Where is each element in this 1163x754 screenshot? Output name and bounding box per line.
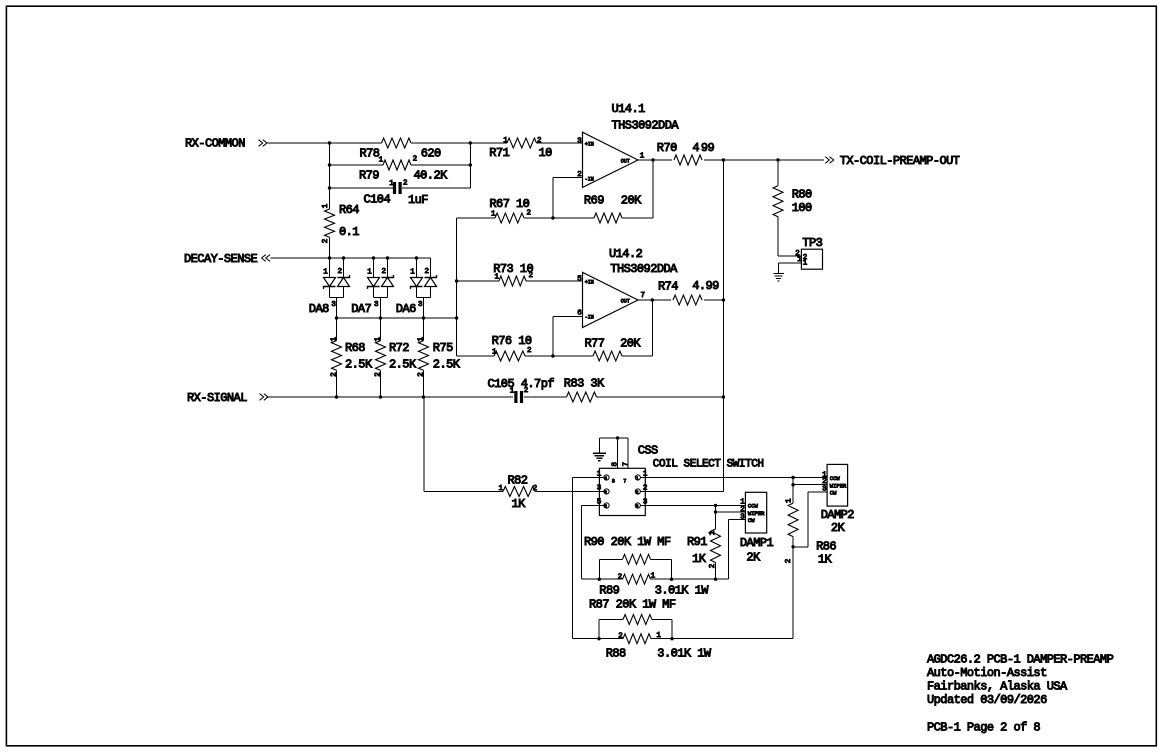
svg-text:+IN: +IN (585, 279, 594, 285)
svg-text:1: 1 (491, 211, 496, 219)
svg-text:2K: 2K (831, 521, 846, 535)
svg-text:8: 8 (611, 462, 619, 467)
svg-text:R91: R91 (687, 535, 707, 549)
svg-text:5: 5 (577, 275, 582, 283)
svg-text:4: 4 (604, 476, 607, 482)
svg-text:CW: CW (748, 517, 755, 524)
svg-text:TX-COIL-PREAMP-OUT: TX-COIL-PREAMP-OUT (840, 154, 960, 168)
svg-text:2: 2 (403, 180, 408, 188)
svg-text:1: 1 (367, 268, 372, 276)
svg-text:2: 2 (533, 485, 538, 493)
svg-text:2: 2 (527, 347, 532, 355)
svg-text:2: 2 (618, 573, 623, 581)
svg-text:2.5K: 2.5K (345, 358, 373, 372)
svg-text:1: 1 (803, 260, 808, 268)
svg-text:1K: 1K (512, 497, 527, 511)
svg-text:40.2K: 40.2K (414, 169, 449, 183)
svg-text:CCW: CCW (748, 503, 759, 510)
svg-text:1: 1 (389, 180, 394, 188)
svg-text:R76 10: R76 10 (492, 334, 532, 348)
svg-text:2K: 2K (746, 551, 761, 565)
svg-text:1: 1 (495, 274, 500, 282)
svg-text:OUT: OUT (621, 159, 630, 165)
svg-text:R64: R64 (339, 203, 359, 217)
svg-text:U14.1: U14.1 (612, 102, 646, 116)
svg-text:1: 1 (417, 337, 425, 342)
svg-text:DA8: DA8 (309, 302, 329, 316)
svg-text:8: 8 (612, 478, 615, 484)
svg-text:3.01K 1W: 3.01K 1W (657, 647, 712, 661)
svg-text:7: 7 (641, 292, 646, 300)
svg-text:6: 6 (577, 309, 582, 317)
svg-text:1: 1 (651, 573, 656, 581)
svg-text:6: 6 (604, 490, 607, 496)
svg-text:3: 3 (740, 513, 745, 521)
svg-text:R75: R75 (433, 341, 453, 355)
svg-text:TP3: TP3 (802, 236, 822, 250)
svg-text:3: 3 (418, 301, 423, 309)
svg-text:2: 2 (529, 272, 534, 280)
svg-text:2: 2 (413, 156, 418, 164)
svg-text:DA6: DA6 (396, 302, 416, 316)
svg-text:R70: R70 (657, 141, 677, 155)
svg-text:R74: R74 (658, 280, 678, 294)
svg-text:Updated 03/09/2026: Updated 03/09/2026 (927, 693, 1047, 707)
svg-text:2: 2 (537, 137, 542, 145)
svg-text:C105 4.7pf: C105 4.7pf (488, 377, 555, 391)
svg-text:R72: R72 (389, 341, 409, 355)
svg-text:10: 10 (539, 146, 553, 160)
svg-text:1: 1 (510, 388, 515, 396)
svg-text:R71: R71 (489, 146, 509, 160)
svg-text:2: 2 (322, 239, 330, 244)
svg-text:2: 2 (524, 387, 529, 395)
svg-text:20K: 20K (621, 193, 642, 207)
svg-text:CSS: CSS (638, 444, 658, 458)
svg-text:1: 1 (410, 268, 415, 276)
svg-text:R67 10: R67 10 (489, 197, 529, 211)
svg-text:WIPER: WIPER (748, 510, 765, 517)
svg-text:1: 1 (323, 268, 328, 276)
svg-text:Auto-Motion-Assist: Auto-Motion-Assist (927, 666, 1047, 680)
svg-text:1: 1 (379, 156, 384, 164)
svg-text:7: 7 (623, 462, 631, 467)
svg-text:COIL SELECT SWITCH: COIL SELECT SWITCH (653, 459, 764, 471)
svg-text:RX-SIGNAL: RX-SIGNAL (187, 391, 247, 405)
svg-text:R89: R89 (599, 584, 619, 598)
svg-text:R79: R79 (359, 169, 379, 183)
svg-text:R90 20K 1W MF: R90 20K 1W MF (584, 535, 671, 549)
svg-text:1: 1 (322, 203, 330, 208)
svg-text:2: 2 (425, 268, 430, 276)
svg-text:2.5K: 2.5K (433, 358, 461, 372)
svg-text:2: 2 (330, 372, 338, 377)
svg-text:R88: R88 (606, 647, 626, 661)
svg-text:R86: R86 (816, 540, 836, 554)
svg-text:2: 2 (374, 372, 382, 377)
svg-text:1: 1 (640, 153, 645, 161)
svg-text:1: 1 (330, 337, 338, 342)
svg-text:AGDC26.2 PCB-1 DAMPER-PREAMP: AGDC26.2 PCB-1 DAMPER-PREAMP (927, 653, 1114, 667)
svg-text:100: 100 (792, 201, 812, 215)
svg-text:2.5K: 2.5K (389, 358, 417, 372)
svg-text:1K: 1K (692, 552, 707, 566)
svg-text:CCW: CCW (830, 475, 841, 482)
svg-text:1: 1 (636, 476, 639, 482)
svg-text:1: 1 (709, 530, 717, 535)
svg-text:C104: C104 (364, 193, 391, 207)
svg-text:3: 3 (331, 301, 336, 309)
svg-text:1uF: 1uF (408, 193, 428, 207)
svg-text:PCB-1 Page 2 of 8: PCB-1 Page 2 of 8 (927, 721, 1040, 735)
svg-text:1: 1 (499, 485, 504, 493)
svg-text:2: 2 (709, 564, 717, 569)
svg-text:THS3092DDA: THS3092DDA (612, 119, 680, 133)
svg-text:OUT: OUT (621, 299, 630, 305)
svg-text:2: 2 (636, 490, 639, 496)
svg-text:R87 20K 1W MF: R87 20K 1W MF (589, 598, 676, 612)
svg-text:4.99: 4.99 (692, 279, 719, 293)
svg-text:DA7: DA7 (351, 302, 371, 316)
svg-text:R82: R82 (508, 474, 528, 488)
svg-text:2: 2 (785, 559, 793, 564)
svg-text:-IN: -IN (585, 314, 594, 320)
svg-text:+IN: +IN (585, 141, 594, 147)
svg-text:3: 3 (374, 301, 379, 309)
svg-text:1: 1 (492, 349, 497, 357)
svg-text:R69: R69 (584, 193, 604, 207)
svg-text:99: 99 (701, 141, 715, 155)
svg-text:DECAY-SENSE: DECAY-SENSE (184, 252, 258, 266)
svg-text:7: 7 (623, 478, 626, 484)
svg-text:R78: R78 (360, 146, 380, 160)
svg-text:THS3092DDA: THS3092DDA (610, 262, 678, 276)
svg-text:1: 1 (503, 137, 508, 145)
svg-text:3: 3 (577, 137, 582, 145)
svg-text:2: 2 (577, 171, 582, 179)
svg-text:R73 10: R73 10 (493, 262, 533, 276)
svg-text:DAMP1: DAMP1 (740, 536, 774, 550)
svg-text:4: 4 (692, 141, 699, 155)
svg-text:2: 2 (382, 268, 387, 276)
svg-text:620: 620 (421, 146, 441, 160)
svg-text:1: 1 (656, 632, 661, 640)
svg-text:0.1: 0.1 (339, 225, 359, 239)
svg-text:U14.2: U14.2 (609, 247, 643, 261)
svg-text:Fairbanks, Alaska USA: Fairbanks, Alaska USA (927, 680, 1068, 694)
svg-text:R83 3K: R83 3K (564, 377, 605, 391)
svg-text:R68: R68 (345, 341, 365, 355)
svg-text:DAMP2: DAMP2 (821, 508, 855, 522)
svg-text:R77: R77 (585, 337, 605, 351)
svg-text:20K: 20K (620, 336, 641, 350)
svg-text:-IN: -IN (585, 177, 594, 183)
svg-text:3.01K 1W: 3.01K 1W (655, 584, 710, 598)
svg-text:2: 2 (618, 633, 623, 641)
svg-text:RX-COMMON: RX-COMMON (185, 137, 245, 151)
svg-text:1K: 1K (818, 553, 833, 567)
svg-text:1: 1 (374, 337, 382, 342)
svg-text:1: 1 (786, 498, 794, 503)
svg-text:2: 2 (338, 268, 343, 276)
svg-text:2: 2 (527, 210, 532, 218)
svg-text:CW: CW (830, 489, 837, 496)
svg-text:3: 3 (822, 486, 827, 494)
svg-text:2: 2 (417, 372, 425, 377)
svg-text:8: 8 (604, 504, 607, 510)
svg-text:1: 1 (797, 256, 802, 264)
svg-text:R80: R80 (792, 188, 812, 202)
svg-text:9: 9 (636, 504, 639, 510)
